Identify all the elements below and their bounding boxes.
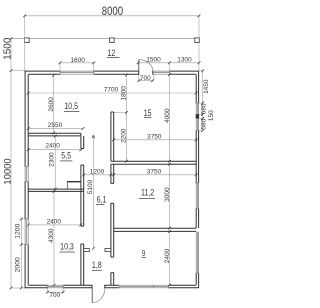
dimension 10000 left	[3, 71, 14, 290]
svg-text:3750: 3750	[147, 168, 162, 175]
extension lines	[11, 16, 203, 292]
svg-text:7700: 7700	[104, 87, 119, 94]
dimension 7700 interior width	[27, 87, 198, 95]
dimension 2600 kitchen	[48, 74, 55, 134]
dimension chain 1800 2200	[114, 74, 128, 163]
window left wall room 5,5	[25, 167, 29, 182]
svg-text:2600: 2600	[48, 97, 55, 112]
dimension 2400 room 10,3	[27, 219, 83, 227]
dimension 2300 room 5,5	[48, 135, 56, 191]
svg-text:1200: 1200	[14, 223, 21, 238]
room label 11,2	[139, 188, 155, 199]
svg-text:2400: 2400	[47, 219, 62, 226]
svg-text:10,3: 10,3	[60, 241, 74, 251]
svg-text:10000: 10000	[3, 158, 14, 184]
svg-text:1800: 1800	[120, 86, 127, 101]
dimension 700 top door	[138, 75, 154, 82]
room label 10,5	[64, 101, 80, 111]
dimension 5100 corridor	[87, 135, 95, 250]
svg-text:2400: 2400	[164, 248, 171, 263]
svg-text:1500: 1500	[146, 56, 161, 63]
window right wall 580 lower	[196, 119, 199, 131]
porch edge line	[11, 38, 199, 40]
dimension 3000 room 11,2	[164, 163, 171, 230]
porch post right	[195, 38, 200, 43]
top wall	[25, 71, 199, 75]
svg-text:2400: 2400	[45, 143, 60, 150]
room label 9	[142, 250, 146, 259]
window right wall 580 upper	[196, 103, 199, 114]
interior wall A vertical	[81, 133, 84, 285]
svg-text:15: 15	[144, 108, 152, 118]
dimension 2400 room 5,5	[27, 143, 83, 151]
interior wall F vertical hall	[111, 164, 114, 285]
svg-text:5,5: 5,5	[61, 151, 71, 161]
window bottom wall room 9	[119, 285, 169, 288]
bottom wall	[25, 285, 199, 288]
window right wall room 11,2	[196, 183, 199, 209]
dimension 3750 room 15	[112, 134, 197, 142]
interior wall C horizontal room 5,5 top	[28, 133, 81, 136]
svg-text:2300: 2300	[48, 152, 55, 167]
dimension 1600 window top	[59, 57, 96, 64]
dimension 2550 kitchen	[27, 122, 85, 130]
dimension 2400 room 9	[164, 230, 171, 287]
window 700 bottom wall	[48, 285, 64, 288]
dimension chain 1200 2000 left wall	[14, 218, 22, 290]
porch post left	[25, 38, 30, 43]
svg-text:580: 580	[201, 118, 208, 129]
dimension 8000 top	[23, 5, 200, 18]
svg-text:2550: 2550	[48, 122, 63, 129]
dimension 700 bottom window	[46, 291, 64, 299]
svg-text:5100: 5100	[87, 179, 94, 194]
svg-text:2200: 2200	[120, 128, 127, 143]
room label 12 porch	[107, 48, 120, 58]
post 150 right wall	[196, 114, 199, 118]
svg-text:1200: 1200	[90, 169, 105, 176]
svg-text:2000: 2000	[14, 257, 21, 272]
svg-text:4000: 4000	[164, 108, 171, 123]
door bottom entrance swing arc	[92, 288, 105, 302]
svg-text:8000: 8000	[102, 5, 123, 18]
interior wall H jamb right	[105, 248, 111, 251]
svg-text:11,2: 11,2	[141, 188, 155, 198]
svg-text:3750: 3750	[147, 134, 162, 141]
interior wall D vertical kitchen	[111, 112, 114, 161]
dimension 4000 room 15	[164, 73, 171, 162]
svg-text:700: 700	[140, 75, 151, 82]
room label 15	[144, 108, 152, 118]
dimension chain 1450 580 150 580 right wall	[201, 69, 215, 132]
window right wall room 9	[196, 232, 199, 273]
window sidelight top wall	[153, 71, 170, 74]
room label 5,5	[60, 151, 72, 161]
svg-text:700: 700	[49, 292, 60, 299]
svg-text:150: 150	[208, 110, 215, 121]
svg-text:1600: 1600	[70, 57, 85, 64]
svg-text:6,1: 6,1	[97, 195, 107, 205]
dimension 4300 room 10,3	[48, 190, 56, 287]
svg-text:1300: 1300	[177, 56, 192, 63]
room label 1,8	[92, 260, 102, 270]
svg-text:1,8: 1,8	[92, 260, 102, 270]
interior wall H jamb left	[84, 248, 90, 251]
room label 10,3	[59, 241, 75, 252]
window 1600 top wall	[60, 71, 94, 74]
right wall	[196, 71, 198, 288]
svg-text:12: 12	[107, 48, 115, 58]
interior wall E horizontal room 15 bottom	[111, 161, 196, 164]
door top entrance swing arc	[139, 60, 153, 71]
dimension 1500 porch left	[3, 37, 14, 72]
room label 6,1	[96, 195, 107, 205]
svg-text:1500: 1500	[3, 37, 14, 60]
porch post middle	[110, 38, 115, 43]
svg-text:3000: 3000	[164, 187, 171, 202]
svg-text:1450: 1450	[203, 79, 210, 94]
left wall	[25, 71, 28, 288]
door top entrance leaf	[138, 60, 140, 71]
dimension chain 1200 3750	[82, 168, 197, 176]
svg-text:4300: 4300	[48, 228, 55, 243]
door bottom entrance leaf	[91, 288, 93, 302]
svg-text:580: 580	[201, 103, 208, 114]
svg-text:10,5: 10,5	[64, 101, 78, 111]
flue box	[67, 181, 81, 189]
interior wall B horizontal room 5,5 bottom	[28, 189, 83, 191]
window left wall room 10,3	[25, 219, 29, 245]
interior wall G horizontal room 9 top	[114, 228, 197, 231]
dimension 1500 door top	[137, 56, 201, 64]
